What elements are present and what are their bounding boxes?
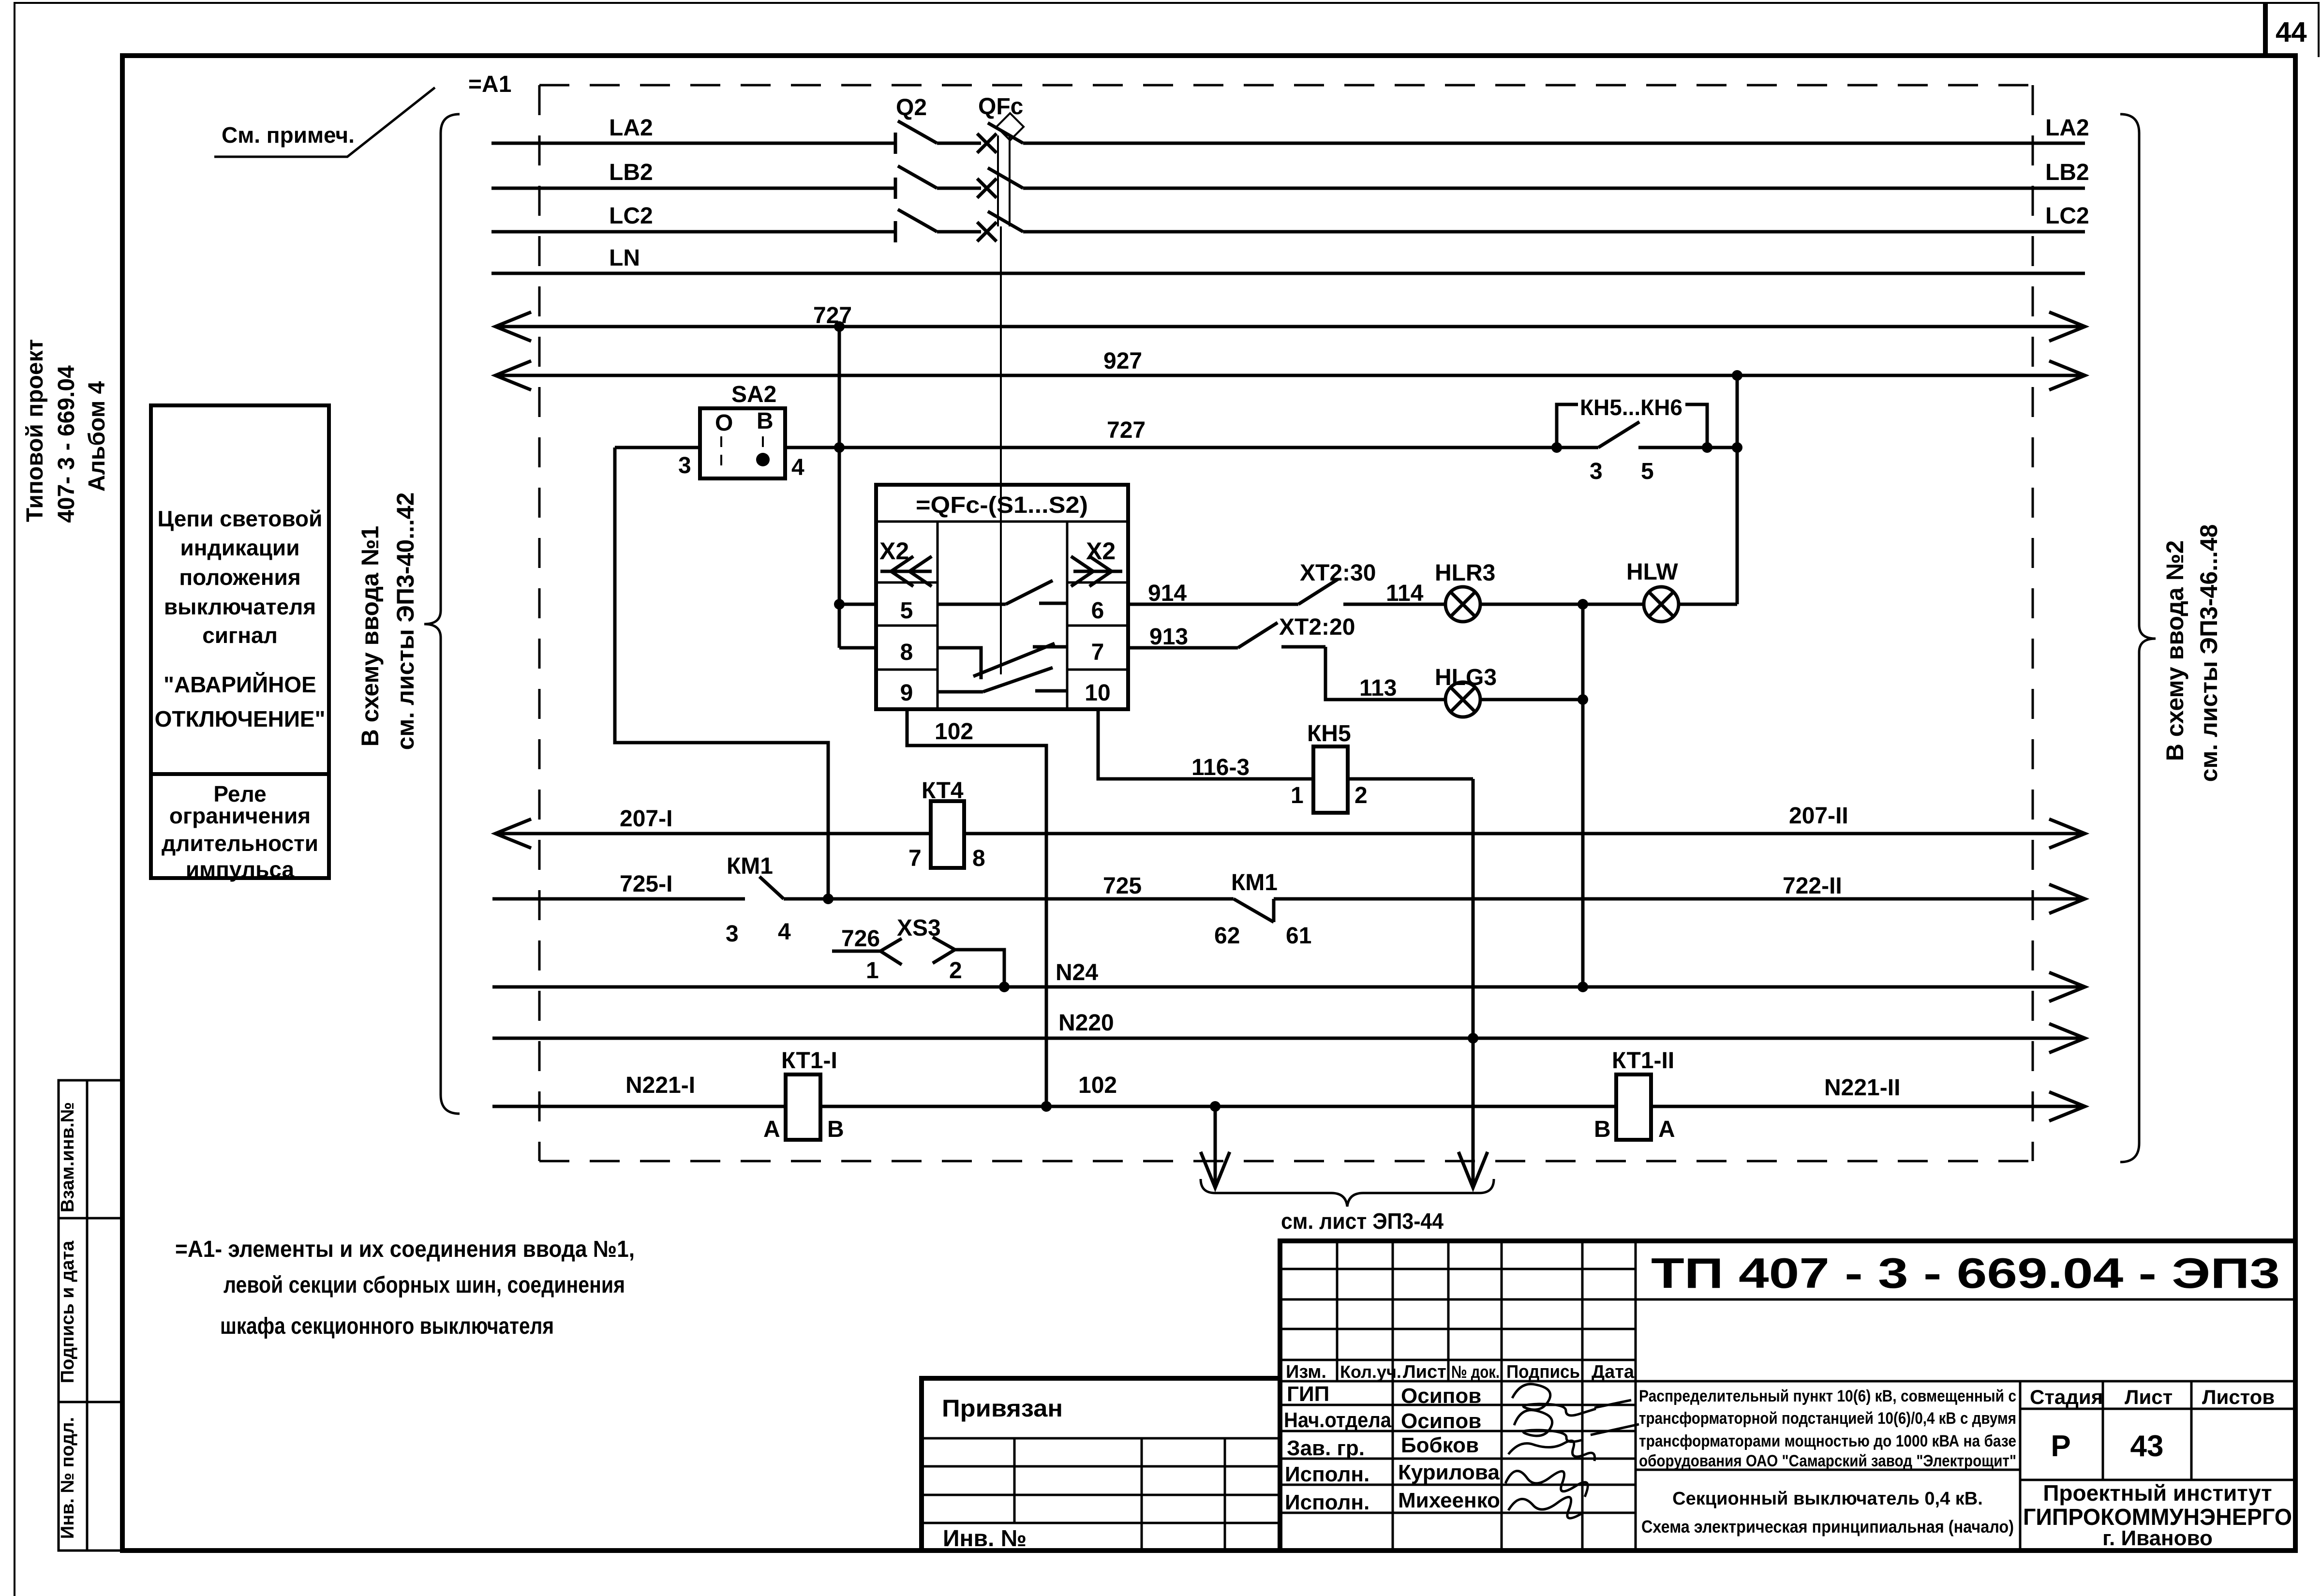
svg-text:=А1- элементы и их соединения: =А1- элементы и их соединения ввода №1, xyxy=(175,1237,635,1262)
wire 727 control row through SA2 xyxy=(615,418,1742,453)
svg-text:6: 6 xyxy=(1091,598,1104,624)
svg-text:10: 10 xyxy=(1085,680,1110,706)
svg-text:X2: X2 xyxy=(1086,537,1116,565)
svg-text:В: В xyxy=(757,408,774,434)
svg-text:XS3: XS3 xyxy=(897,915,941,941)
svg-text:726: 726 xyxy=(841,926,880,952)
svg-text:725-I: 725-I xyxy=(620,871,672,897)
svg-text:КТ1-II: КТ1-II xyxy=(1612,1048,1674,1074)
indication circuits description box xyxy=(151,405,329,882)
svg-text:Листов: Листов xyxy=(2202,1386,2275,1408)
svg-text:№ док.: № док. xyxy=(1451,1362,1500,1382)
svg-text:трансформаторной подстанцией 1: трансформаторной подстанцией 10(6)/0,4 к… xyxy=(1639,1409,2016,1428)
wire LC2 xyxy=(491,203,2089,232)
svg-text:N220: N220 xyxy=(1058,1010,1114,1036)
svg-text:727: 727 xyxy=(813,303,852,328)
svg-text:=QFc-(S1...S2): =QFc-(S1...S2) xyxy=(916,492,1088,518)
relay coil KT1-II xyxy=(1594,1048,1675,1142)
svg-text:LB2: LB2 xyxy=(609,160,653,185)
svg-text:Кол.уч.: Кол.уч. xyxy=(1340,1362,1401,1382)
svg-text:сигнал: сигнал xyxy=(202,623,278,648)
svg-text:8: 8 xyxy=(972,846,985,871)
svg-text:XT2:20: XT2:20 xyxy=(1279,614,1355,640)
svg-text:Типовой проект: Типовой проект xyxy=(22,339,48,522)
wire sheet arrow left xyxy=(1201,1106,1230,1188)
svg-text:индикации: индикации xyxy=(180,535,300,560)
privyazan box xyxy=(922,1378,1280,1551)
svg-text:см. листы ЭП3-40...42: см. листы ЭП3-40...42 xyxy=(392,492,419,750)
svg-text:ГИП: ГИП xyxy=(1287,1382,1329,1406)
wire 913 from pin 7 xyxy=(1128,624,1238,650)
svg-text:Распределительный пункт 10(6): Распределительный пункт 10(6) кВ, совмещ… xyxy=(1639,1387,2016,1405)
svg-text:927: 927 xyxy=(1103,348,1142,374)
svg-text:Лист: Лист xyxy=(2125,1386,2173,1408)
svg-text:Дата: Дата xyxy=(1592,1362,1635,1382)
svg-text:2: 2 xyxy=(949,958,962,984)
svg-text:В: В xyxy=(827,1117,844,1142)
svg-text:5: 5 xyxy=(900,598,913,624)
svg-text:КМ1: КМ1 xyxy=(727,853,773,879)
svg-text:КН5...КН6: КН5...КН6 xyxy=(1580,395,1682,420)
svg-text:Цепи световой: Цепи световой xyxy=(158,506,323,531)
wire 113 to HLG3 xyxy=(1325,647,1445,701)
svg-text:LA2: LA2 xyxy=(609,115,653,141)
wire KH5 to N220 and sheet arrow xyxy=(1348,779,1488,1188)
svg-text:N221-I: N221-I xyxy=(625,1073,695,1098)
relay coil KT4 xyxy=(908,778,985,871)
title block description xyxy=(1639,1387,2016,1536)
wire SA2 terminal3 to 725 xyxy=(615,447,828,899)
svg-text:N221-II: N221-II xyxy=(1824,1075,1900,1101)
svg-text:Осипов: Осипов xyxy=(1401,1409,1481,1433)
lamp HLR3 xyxy=(1435,560,1495,622)
svg-text:HLR3: HLR3 xyxy=(1435,560,1495,586)
svg-text:Проектный институт: Проектный институт xyxy=(2043,1480,2272,1506)
svg-text:КТ1-I: КТ1-I xyxy=(781,1048,837,1074)
wire HLW to 927 riser xyxy=(1679,375,1737,604)
svg-text:HLG3: HLG3 xyxy=(1435,665,1497,690)
svg-text:114: 114 xyxy=(1386,581,1424,606)
svg-text:914: 914 xyxy=(1148,581,1187,606)
svg-text:см. лист ЭП3-44: см. лист ЭП3-44 xyxy=(1281,1208,1444,1234)
wire 102 from pin 9 xyxy=(907,709,1052,1112)
lamp HLG3 xyxy=(1435,665,1497,717)
wire HLR3 to HLW xyxy=(1480,599,1644,610)
svg-text:3: 3 xyxy=(678,453,691,478)
svg-text:Стадия: Стадия xyxy=(2030,1386,2103,1408)
svg-text:1: 1 xyxy=(866,958,879,984)
svg-text:102: 102 xyxy=(1078,1073,1117,1098)
svg-text:Q2: Q2 xyxy=(896,95,927,120)
svg-text:Зав. гр.: Зав. гр. xyxy=(1287,1436,1365,1460)
svg-text:4: 4 xyxy=(778,919,791,945)
svg-text:7: 7 xyxy=(908,846,922,871)
wire QFc mechanism link xyxy=(1000,226,1002,674)
svg-text:725: 725 xyxy=(1103,873,1142,899)
svg-text:О: О xyxy=(715,410,733,436)
brace see sheet EP3-44 xyxy=(1201,1179,1494,1234)
svg-text:А: А xyxy=(1658,1117,1675,1142)
svg-text:ТП 407 - 3 - 669.04 - ЭП3: ТП 407 - 3 - 669.04 - ЭП3 xyxy=(1651,1249,2280,1297)
svg-text:4: 4 xyxy=(791,455,804,480)
lamp HLW xyxy=(1626,559,1679,622)
wire N220 bus xyxy=(492,1010,2085,1053)
svg-text:длительности: длительности xyxy=(162,831,318,856)
title block doc number xyxy=(1651,1249,2280,1297)
svg-text:Привязан: Привязан xyxy=(942,1395,1063,1422)
svg-text:113: 113 xyxy=(1359,675,1397,701)
svg-text:оборудования ОАО "Самарский за: оборудования ОАО "Самарский завод "Элект… xyxy=(1639,1452,2016,1470)
svg-text:Инв. № подл.: Инв. № подл. xyxy=(58,1417,78,1539)
wire LB2 xyxy=(491,160,2089,188)
svg-text:=А1: =А1 xyxy=(468,72,511,97)
switch SA2 xyxy=(678,382,804,480)
svg-text:См. примеч.: См. примеч. xyxy=(222,122,355,148)
svg-text:2: 2 xyxy=(1354,783,1368,808)
svg-text:727: 727 xyxy=(1107,418,1146,443)
svg-text:SA2: SA2 xyxy=(731,382,776,407)
wire 725 bus xyxy=(492,871,2085,913)
bracket input No2 (right) xyxy=(2120,114,2222,1162)
wire 207 bus xyxy=(495,803,2085,848)
svg-text:импульса: импульса xyxy=(186,857,295,882)
svg-text:3: 3 xyxy=(726,921,739,947)
svg-text:положения: положения xyxy=(179,565,300,590)
signatures xyxy=(1505,1384,1639,1518)
wire 114 to HLR3 xyxy=(1343,581,1445,606)
svg-text:62: 62 xyxy=(1214,923,1240,949)
svg-text:407- 3 - 669.04: 407- 3 - 669.04 xyxy=(54,365,79,523)
title block (osnovnaya nadpis) xyxy=(1280,1241,2295,1551)
svg-text:левой секции сборных шин, соед: левой секции сборных шин, соединения xyxy=(223,1272,625,1298)
svg-text:см. листы ЭП3-46...48: см. листы ЭП3-46...48 xyxy=(2195,524,2222,782)
svg-text:722-II: 722-II xyxy=(1783,873,1842,899)
wire 927 xyxy=(495,348,2085,390)
svg-text:LA2: LA2 xyxy=(2045,115,2089,141)
left margin project label xyxy=(22,339,110,523)
wire 727 vertical to X2 pins xyxy=(834,327,876,648)
left stamp strip xyxy=(58,1080,122,1551)
svg-text:Секционный выключатель 0,4 кВ.: Секционный выключатель 0,4 кВ. xyxy=(1672,1489,1983,1509)
svg-text:HLW: HLW xyxy=(1626,559,1678,585)
svg-text:Курилова: Курилова xyxy=(1398,1461,1500,1484)
contact XT2:20 xyxy=(1238,614,1355,648)
wire LN xyxy=(491,245,2085,273)
svg-text:9: 9 xyxy=(900,680,913,706)
svg-text:LB2: LB2 xyxy=(2045,160,2089,185)
svg-text:QFc: QFc xyxy=(978,94,1023,119)
svg-text:Изм.: Изм. xyxy=(1286,1362,1326,1382)
svg-text:5: 5 xyxy=(1641,459,1654,484)
svg-text:207-I: 207-I xyxy=(620,806,672,832)
circuit breaker QFc xyxy=(977,94,1024,241)
wire LA2 xyxy=(491,115,2089,143)
svg-text:N24: N24 xyxy=(1056,960,1098,985)
svg-text:7: 7 xyxy=(1091,640,1104,665)
svg-text:трансформаторами мощностью до: трансформаторами мощностью до 1000 кВА н… xyxy=(1639,1432,2016,1450)
relay coil KH5 xyxy=(1291,721,1368,813)
svg-text:Исполн.: Исполн. xyxy=(1285,1491,1369,1514)
contact KM1 3-4 xyxy=(726,853,791,947)
svg-text:43: 43 xyxy=(2130,1430,2164,1463)
svg-text:А: А xyxy=(763,1117,780,1142)
svg-text:В: В xyxy=(1594,1117,1611,1142)
svg-text:КН5: КН5 xyxy=(1307,721,1351,746)
dashed box =A1 xyxy=(539,85,2033,1161)
svg-text:ОТКЛЮЧЕНИЕ": ОТКЛЮЧЕНИЕ" xyxy=(155,706,326,731)
svg-text:44: 44 xyxy=(2276,16,2307,48)
svg-text:Михеенко: Михеенко xyxy=(1398,1489,1500,1512)
svg-text:Инв. №: Инв. № xyxy=(943,1526,1027,1551)
svg-text:LC2: LC2 xyxy=(2045,203,2089,229)
svg-text:207-II: 207-II xyxy=(1789,803,1848,829)
connector XS3 wire 726 xyxy=(832,915,1004,987)
title block right section grid xyxy=(1636,1299,2295,1551)
svg-text:Взам.инв.№: Взам.инв.№ xyxy=(58,1102,78,1212)
svg-text:61: 61 xyxy=(1286,923,1311,949)
svg-text:116-3: 116-3 xyxy=(1191,755,1250,780)
svg-text:выключателя: выключателя xyxy=(164,594,316,619)
wire 727 (top bus) xyxy=(495,303,2085,341)
svg-text:Р: Р xyxy=(2051,1430,2070,1463)
label =A1 xyxy=(468,72,511,97)
note См. примеч. with leader xyxy=(214,88,435,157)
svg-text:Лист: Лист xyxy=(1403,1362,1446,1382)
svg-text:LN: LN xyxy=(609,245,640,271)
svg-text:913: 913 xyxy=(1149,624,1188,650)
svg-text:В схему ввода №1: В схему ввода №1 xyxy=(357,526,384,747)
svg-text:Исполн.: Исполн. xyxy=(1285,1462,1369,1486)
contact XT2:30 xyxy=(1298,560,1376,604)
svg-text:ограничения: ограничения xyxy=(169,803,311,828)
svg-text:Бобков: Бобков xyxy=(1401,1433,1479,1457)
wire HLG3 to node xyxy=(1480,694,1588,705)
svg-text:Схема электрическая принципиал: Схема электрическая принципиальная (нача… xyxy=(1641,1517,2014,1536)
svg-text:г. Иваново: г. Иваново xyxy=(2102,1526,2213,1550)
wire 116-3 from pin 10 xyxy=(1098,709,1313,780)
wire N24 bus xyxy=(492,960,2085,1001)
svg-text:Подпись и дата: Подпись и дата xyxy=(58,1240,78,1383)
note =A1 elements xyxy=(175,1237,635,1339)
svg-text:3: 3 xyxy=(1590,459,1603,484)
contact KM1 62-61 xyxy=(1214,870,1311,949)
svg-text:8: 8 xyxy=(900,640,913,665)
switch Q2 (3-pole disconnector) xyxy=(895,95,937,242)
svg-text:LC2: LC2 xyxy=(609,203,653,229)
svg-text:"АВАРИЙНОЕ: "АВАРИЙНОЕ xyxy=(164,672,316,697)
svg-text:шкафа секционного выключателя: шкафа секционного выключателя xyxy=(220,1313,554,1339)
svg-text:1: 1 xyxy=(1291,783,1304,808)
wire 914 from pin 6 xyxy=(1128,581,1298,606)
wire node riser to N24 xyxy=(1578,604,1588,992)
svg-text:Подпись: Подпись xyxy=(1506,1362,1580,1382)
svg-text:102: 102 xyxy=(935,719,973,745)
connector block =QFc-(S1...S2) xyxy=(876,485,1128,709)
svg-text:КМ1: КМ1 xyxy=(1231,870,1278,895)
wire N221/102 bus xyxy=(492,1073,2085,1121)
contact KH5...KH6 xyxy=(1557,395,1707,484)
sheet number box 44 xyxy=(2265,3,2307,56)
svg-text:Осипов: Осипов xyxy=(1401,1384,1481,1408)
svg-text:В схему ввода №2: В схему ввода №2 xyxy=(2161,540,2188,761)
relay coil KT1-I xyxy=(763,1048,844,1142)
svg-text:Альбом 4: Альбом 4 xyxy=(84,381,110,492)
svg-text:XT2:30: XT2:30 xyxy=(1300,560,1376,586)
bracket input No1 (left) xyxy=(357,114,460,1114)
svg-text:Нач.отдела: Нач.отдела xyxy=(1284,1408,1391,1432)
